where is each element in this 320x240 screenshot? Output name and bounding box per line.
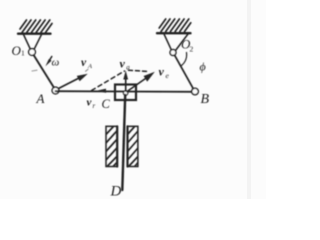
- link O2-B: [175, 55, 194, 89]
- faint scan dash left of link O1A: [32, 69, 37, 72]
- svg-text:v: v: [81, 57, 87, 69]
- svg-text:2: 2: [190, 45, 194, 54]
- svg-text:B: B: [201, 92, 210, 107]
- svg-text:C: C: [102, 97, 111, 111]
- dashed parallelogram side (ve tip to va tip): [129, 70, 150, 71]
- crank link O1-A: [34, 55, 55, 89]
- svg-text:ω: ω: [52, 57, 60, 69]
- svg-text:r: r: [93, 102, 96, 110]
- transport velocity arrow ve: [127, 79, 146, 92]
- svg-text:1: 1: [21, 49, 25, 58]
- left guide block: [106, 126, 117, 166]
- slider block at C: [115, 85, 136, 101]
- fixed support base line O2: [157, 32, 191, 34]
- relative velocity arrowhead vr: [97, 89, 107, 93]
- svg-text:a: a: [126, 64, 130, 72]
- svg-text:ϕ: ϕ: [200, 60, 206, 74]
- velocity arrow vA: [59, 78, 81, 89]
- fixed support triangle O1: [24, 35, 42, 50]
- scan page-edge light band: [247, 0, 251, 199]
- joint B: [192, 88, 199, 95]
- absolute velocity arrow va: [125, 78, 127, 91]
- svg-text:v: v: [87, 97, 92, 109]
- fixed support hatching O1: [20, 20, 52, 33]
- svg-text:O: O: [12, 43, 22, 58]
- fixed support base line O1: [18, 33, 51, 35]
- pin C: [123, 91, 127, 95]
- omega arrow: [49, 57, 52, 62]
- fixed support triangle O2: [164, 34, 188, 51]
- svg-text:D: D: [110, 184, 122, 200]
- pivot O1: [29, 49, 36, 56]
- right guide block: [128, 126, 138, 166]
- faint scan dash near vA label: [86, 69, 89, 71]
- pivot O2: [170, 50, 176, 56]
- paper background: [0, 0, 266, 199]
- fixed support hatching O2: [159, 19, 191, 32]
- svg-text:A: A: [36, 91, 45, 106]
- joint A: [52, 87, 59, 94]
- svg-text:v: v: [120, 57, 126, 71]
- svg-text:v: v: [159, 65, 165, 79]
- dashed parallelogram side (vr tip to va tip): [92, 71, 125, 91]
- link A-B: [56, 90, 196, 93]
- angle arc phi: [182, 53, 187, 66]
- svg-text:A: A: [87, 63, 92, 70]
- rod C-D: [122, 95, 125, 190]
